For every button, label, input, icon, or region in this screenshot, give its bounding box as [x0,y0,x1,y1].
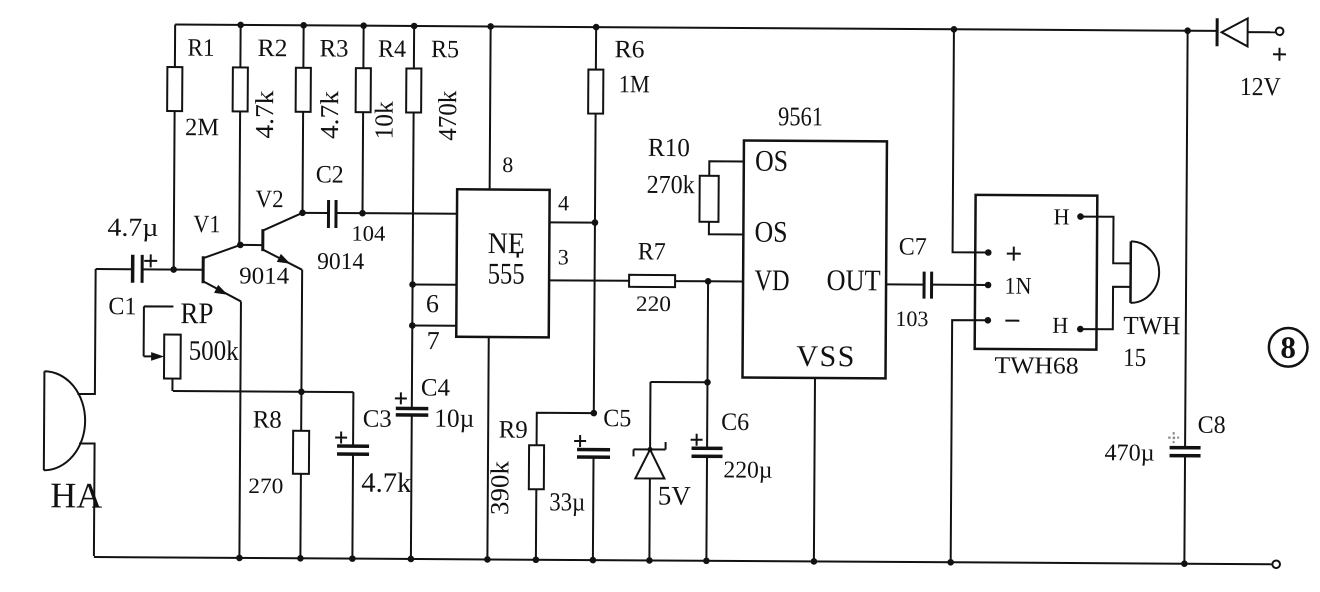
svg-text:R6: R6 [614,36,644,63]
node R4 bottom [359,210,366,217]
svg-text:9014: 9014 [317,249,364,275]
resistor R2 [232,25,288,245]
svg-text:4.7k: 4.7k [250,90,279,138]
svg-text:5V: 5V [658,480,692,510]
svg-text:RP: RP [180,297,213,330]
svg-text:R5: R5 [431,36,459,63]
potentiometer RP [143,297,239,392]
svg-text:OUT: OUT [826,264,880,297]
node V2 collector / R3 / C2 [299,209,306,216]
wire VD pin [708,280,743,282]
svg-text:R7: R7 [638,238,666,265]
svg-text:R3: R3 [319,35,348,62]
svg-text:4.7k: 4.7k [315,91,344,139]
svg-text:8: 8 [1280,330,1296,365]
capacitor C2 [302,161,457,246]
svg-text:TWH68: TWH68 [994,353,1078,380]
wire V1 collector to V2 base [240,244,262,246]
figure number badge 8 [1269,328,1308,367]
capacitor C8 [1104,30,1228,563]
svg-text:500k: 500k [189,336,239,367]
svg-text:VSS: VSS [796,340,854,373]
svg-text:1N: 1N [1004,274,1031,300]
transistor V2 [254,186,364,392]
svg-text:3: 3 [558,244,569,269]
node R7 / VD / C6 [705,278,712,285]
microphone HA [43,269,103,556]
svg-text:V2: V2 [255,186,283,213]
svg-text:H: H [1053,204,1069,229]
svg-text:1M: 1M [619,71,650,98]
svg-text:4: 4 [558,190,569,215]
svg-text:12V: 12V [1240,72,1281,101]
capacitor C7 [885,233,988,331]
pin 1 NE555 ground [487,337,488,558]
svg-text:H: H [1052,313,1068,338]
node V1 collector / R2 [237,242,244,249]
wire top supply rail [175,25,1217,31]
node zener / C6 branch [704,379,711,386]
pin 3 NE555 [549,244,629,280]
node pin4 / R6 [592,219,599,226]
svg-text:OS: OS [754,216,787,249]
capacitor C6 [690,281,774,560]
svg-text:C4: C4 [421,375,451,402]
svg-text:270: 270 [248,473,283,498]
svg-text:4.7µ: 4.7µ [107,213,158,242]
diode D1 [1217,18,1287,101]
svg-text:10µ: 10µ [434,404,474,433]
svg-text:NE: NE [488,227,525,260]
pin 6 NE555 [412,284,456,318]
svg-text:33µ: 33µ [549,487,585,516]
svg-text:10k: 10k [369,101,398,139]
terminal bottom right [1272,560,1280,568]
wire VSS to ground [814,378,815,560]
svg-text:TWH: TWH [1123,311,1180,340]
svg-text:103: 103 [895,306,928,331]
svg-text:VD: VD [754,264,789,297]
wire emitter node A [173,391,353,392]
capacitor C3 [334,392,412,558]
junction dots bottom rail [236,555,1188,567]
resistor R8 [248,391,310,557]
resistor R4 [355,26,407,214]
svg-text:R9: R9 [499,417,528,444]
pin 8 NE555 [490,26,514,189]
svg-text:R8: R8 [253,407,282,434]
speaker TWH15 [1123,241,1181,372]
svg-text:220µ: 220µ [723,457,772,483]
zener diode 5V [633,382,708,560]
svg-text:220: 220 [636,291,671,316]
pin H top TWH68 [1053,204,1131,263]
pin 4 NE555 [549,190,595,222]
wire bottom ground rail [94,557,1272,564]
svg-text:2M: 2M [185,114,219,141]
svg-text:C3: C3 [363,406,392,433]
svg-text:C8: C8 [1198,412,1226,439]
resistor R9 [485,412,594,559]
svg-text:C1: C1 [108,293,136,320]
svg-text:R4: R4 [378,36,407,63]
svg-text:9561: 9561 [778,101,823,131]
svg-text:8: 8 [502,152,513,177]
pin + TWH68 [953,29,1023,260]
pin 1N TWH68 [985,273,1032,299]
resistor R1 [166,24,219,269]
svg-text:C7: C7 [899,233,927,260]
IC U3 TWH68 [974,195,1097,380]
capacitor C4 [394,374,475,558]
svg-text:7: 7 [427,326,440,355]
resistor R5 [404,26,462,409]
svg-text:390k: 390k [485,461,514,515]
svg-text:15: 15 [1123,343,1146,372]
junction dots top rail [237,22,1191,34]
svg-text:9014: 9014 [239,263,289,289]
svg-text:R10: R10 [648,133,690,162]
svg-text:C5: C5 [603,405,631,432]
node R9 / C5 [590,410,597,417]
capacitor C5 [573,405,631,559]
svg-text:C6: C6 [721,409,749,436]
svg-text:270k: 270k [647,170,695,199]
resistor R6 [586,27,650,413]
resistor R7 [629,238,708,316]
svg-text:470µ: 470µ [1104,440,1154,466]
pin 7 NE555 [412,325,456,355]
resistor R10 [646,133,744,235]
svg-text:HA: HA [50,475,102,515]
pin H bottom TWH68 [1052,286,1130,338]
node base of V1 [170,266,177,273]
node R8 / V2 emitter [298,388,305,395]
svg-text:555: 555 [488,257,525,290]
svg-text:470k: 470k [433,91,462,141]
transistor V1 [191,211,289,557]
svg-text:OS: OS [755,145,788,178]
op-amp U1 NE555 [456,189,549,337]
svg-text:C2: C2 [316,161,344,188]
svg-text:R2: R2 [257,35,287,62]
svg-text:6: 6 [426,289,439,318]
capacitor C1 [95,213,203,321]
resistor R3 [295,25,349,213]
svg-text:4.7k: 4.7k [361,468,411,499]
svg-text:R1: R1 [187,35,214,62]
IC U2 9561 [743,101,888,378]
svg-text:V1: V1 [193,211,220,238]
svg-text:104: 104 [351,221,385,246]
pin minus TWH68 [951,317,1020,562]
